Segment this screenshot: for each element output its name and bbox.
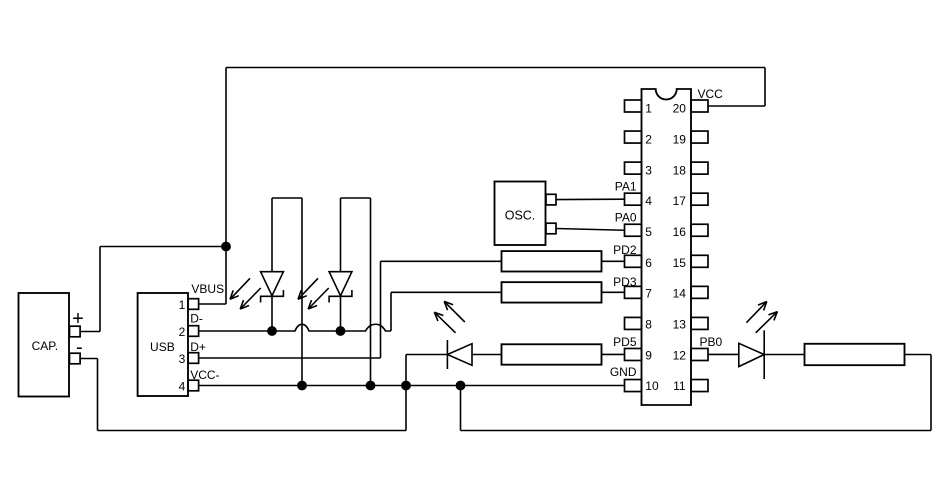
svg-text:PD5: PD5 [613,335,637,349]
svg-text:20: 20 [673,102,687,116]
svg-text:18: 18 [673,163,687,177]
svg-text:3: 3 [645,163,652,177]
svg-text:19: 19 [673,133,687,147]
svg-text:PB0: PB0 [700,335,723,349]
svg-text:2: 2 [645,133,652,147]
svg-text:9: 9 [645,348,652,362]
svg-text:4: 4 [179,380,186,394]
svg-text:11: 11 [673,379,686,393]
svg-text:GND: GND [610,365,637,379]
svg-text:D-: D- [190,312,203,326]
svg-text:2: 2 [179,325,186,339]
svg-text:PA1: PA1 [615,180,637,194]
svg-text:5: 5 [645,225,652,239]
svg-text:1: 1 [179,298,186,312]
svg-text:1: 1 [645,102,652,116]
svg-text:7: 7 [645,287,652,301]
svg-text:VBUS: VBUS [191,282,224,296]
svg-text:VCC: VCC [698,87,724,101]
svg-text:4: 4 [645,194,652,208]
svg-text:6: 6 [645,256,652,270]
svg-text:+: + [72,308,84,330]
svg-text:USB: USB [150,340,175,354]
svg-text:3: 3 [179,352,186,366]
svg-text:PD3: PD3 [613,275,637,289]
svg-text:15: 15 [673,256,687,270]
svg-text:8: 8 [645,317,652,331]
svg-text:OSC.: OSC. [505,208,536,222]
svg-text:10: 10 [645,379,659,393]
svg-text:PA0: PA0 [615,211,637,225]
svg-text:PD2: PD2 [613,243,637,257]
svg-text:13: 13 [673,317,687,331]
svg-text:16: 16 [673,225,687,239]
svg-text:D+: D+ [190,340,206,354]
svg-text:CAP.: CAP. [32,339,58,353]
svg-text:-: - [76,337,83,359]
svg-text:17: 17 [673,194,687,208]
svg-text:14: 14 [673,287,687,301]
svg-text:VCC-: VCC- [190,368,219,382]
svg-text:12: 12 [673,348,687,362]
